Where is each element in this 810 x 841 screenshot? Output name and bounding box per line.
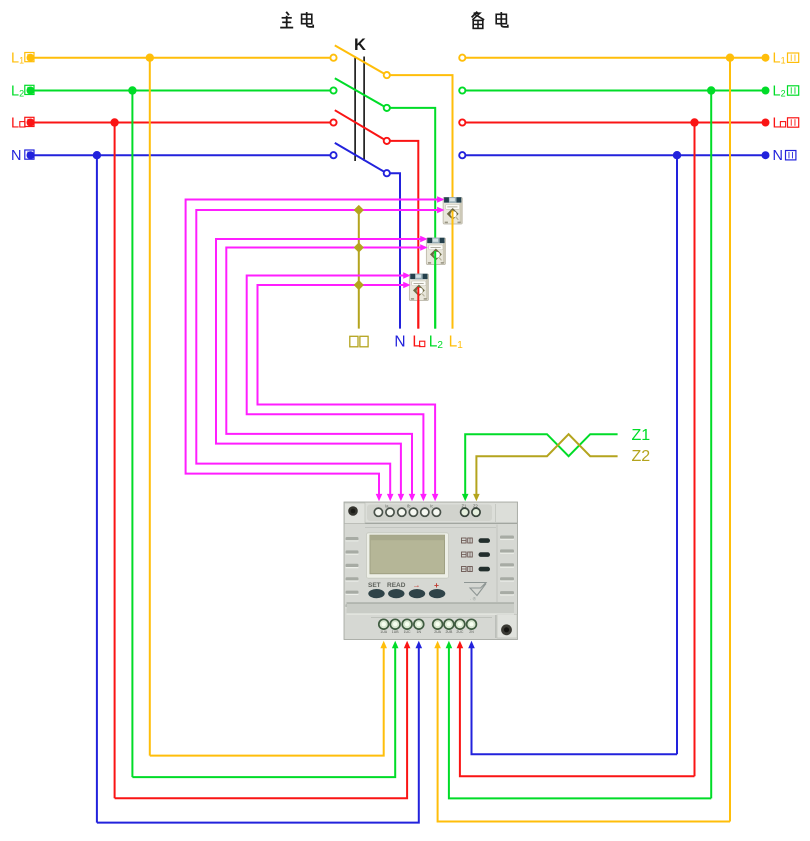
switch K pole N blade — [335, 143, 385, 172]
node L3 load label — [412, 334, 424, 351]
svg-text:K: K — [354, 36, 366, 54]
node L1 backup label — [773, 51, 799, 67]
switch K pole L1 output contact — [384, 72, 390, 78]
device U1 top terminal block — [374, 504, 480, 517]
node L1 load label — [449, 334, 464, 352]
wire U1 2UA sampling — [434, 641, 730, 822]
switch K backup contact L2 — [459, 87, 465, 93]
svg-text:N: N — [11, 148, 21, 164]
junction CT common a — [354, 205, 364, 215]
switch K backup contact L1 — [459, 55, 465, 61]
svg-text:2UC: 2UC — [456, 630, 463, 634]
wire L2 right vertical — [710, 91, 712, 799]
junction L3 right — [690, 118, 698, 126]
wire N backup horizontal — [466, 151, 770, 159]
wire L1 output drop — [390, 75, 453, 329]
wire U1 1N sampling — [97, 641, 422, 823]
wire U1 2UC sampling — [457, 641, 695, 776]
wire L2 main horizontal — [27, 87, 331, 95]
node L3 main source label — [11, 115, 34, 131]
switch K coupler bars — [355, 57, 364, 162]
junction N right — [673, 151, 681, 159]
wire L3 right vertical — [694, 123, 696, 777]
svg-text:Z1: Z1 — [632, 427, 651, 444]
switch K pole L2 main contact — [330, 87, 336, 93]
wire CT secondary s4 — [226, 244, 427, 501]
node N load label — [394, 334, 405, 351]
device U1 bottom terminal block — [379, 619, 477, 634]
current transformer CT1 — [443, 197, 462, 224]
wire L3 through CT3 — [417, 287, 419, 329]
wire N main horizontal — [27, 151, 331, 159]
wire L2 backup horizontal — [466, 87, 770, 95]
svg-text:Z2: Z2 — [632, 448, 651, 465]
switch K pole L2 blade — [335, 78, 385, 107]
label main power (zhu dian) — [280, 12, 313, 28]
node L2 main source label — [11, 83, 34, 99]
switch K pole L1 blade — [335, 45, 385, 74]
wire Z1 bus — [462, 434, 618, 501]
junction N left — [93, 151, 101, 159]
wire CT secondary s2 — [196, 207, 444, 502]
svg-text:2N: 2N — [469, 630, 474, 634]
junction CT common c — [354, 280, 364, 290]
junction L3 left — [110, 118, 118, 126]
node L1 main source label — [11, 51, 34, 67]
node CT common label — [350, 336, 368, 347]
svg-text:L2: L2 — [429, 334, 444, 352]
wire L2 output drop — [390, 108, 435, 329]
switch K backup contact L3 — [459, 119, 465, 125]
node Z2 label — [632, 448, 651, 465]
wire L1 through CT1 — [452, 211, 454, 329]
svg-text:Z1: Z1 — [462, 504, 468, 509]
svg-text:L2: L2 — [773, 83, 786, 99]
svg-text:N: N — [394, 334, 405, 351]
svg-text:+: + — [434, 580, 439, 590]
switch K pole L3 main contact — [330, 119, 336, 125]
node N backup label — [773, 148, 796, 164]
svg-text:L1: L1 — [773, 51, 786, 67]
wire L2 through CT2 — [434, 251, 436, 329]
wire L3 backup horizontal — [466, 119, 770, 127]
wire L3 main horizontal — [27, 119, 331, 127]
node L2 backup label — [773, 83, 799, 99]
wire U1 1UB sampling — [132, 641, 398, 777]
wire U1 1UA sampling — [150, 641, 387, 756]
svg-text:2UB: 2UB — [445, 630, 452, 634]
wire CT secondary s5 — [247, 272, 427, 501]
svg-text:SET: SET — [368, 582, 381, 589]
junction L2 left — [128, 86, 136, 94]
svg-text:Ic: Ic — [430, 504, 433, 509]
wire N output drop — [390, 173, 400, 328]
switch K pole L3 output contact — [384, 138, 390, 144]
switch K pole L1 main contact — [330, 55, 336, 61]
wire L3 left vertical — [114, 123, 116, 799]
svg-text:L1: L1 — [449, 334, 464, 352]
wire L3 output drop — [390, 141, 419, 329]
node N main source label — [11, 148, 34, 164]
device U1 bottom panel groove — [371, 615, 496, 638]
switch K pole L3 blade — [335, 110, 385, 140]
junction L1 right — [726, 54, 734, 62]
node Z1 label — [632, 427, 651, 444]
svg-text:L1: L1 — [11, 51, 24, 67]
node L2 load label — [429, 334, 444, 352]
wire CT secondary s3 — [216, 236, 428, 502]
svg-text:2UA: 2UA — [434, 630, 441, 634]
svg-text:→: → — [413, 581, 421, 590]
indicator fault label and LED — [462, 552, 491, 557]
switch K pole N main contact — [330, 152, 336, 158]
wire N left vertical — [96, 155, 98, 822]
svg-text:L: L — [773, 115, 781, 131]
switch K pole N output contact — [384, 170, 390, 176]
switch K pole L2 output contact — [384, 105, 390, 111]
wire L1 backup horizontal — [466, 54, 770, 62]
junction L2 right — [707, 86, 715, 94]
svg-text:1UB: 1UB — [392, 630, 399, 634]
junction CT common b — [354, 242, 364, 252]
label switch K — [354, 36, 366, 54]
svg-text:L: L — [11, 115, 19, 131]
device U1 right vents — [500, 536, 514, 610]
wire U1 2N sampling — [468, 641, 677, 755]
device U1 body — [344, 502, 518, 640]
wire CT secondary s1 — [186, 196, 445, 501]
device U1 buttons SET READ arrow plus — [368, 580, 445, 598]
svg-text:READ: READ — [387, 582, 406, 589]
wire Z2 bus — [473, 434, 617, 501]
wire U1 1UC sampling — [115, 641, 411, 798]
wire L1 left vertical — [149, 58, 151, 756]
indicator run label and LED — [462, 567, 491, 572]
wire L1 right vertical — [729, 58, 731, 822]
svg-text:L2: L2 — [11, 83, 24, 99]
wire L1 main horizontal — [27, 54, 331, 62]
current transformer CT2 — [426, 238, 445, 265]
wire L2 left vertical — [131, 91, 133, 778]
svg-text:· ®: · ® — [470, 596, 477, 602]
device U1 groove strip — [347, 603, 515, 614]
wire N right vertical — [676, 155, 678, 754]
wire CT secondary s6 — [258, 282, 439, 502]
wire CT common vertical — [358, 210, 360, 329]
svg-text:N: N — [773, 148, 783, 164]
device U1 left vents — [346, 537, 359, 608]
current transformer CT3 — [409, 274, 428, 301]
wire U1 2UB sampling — [446, 641, 712, 799]
switch K backup contact N — [459, 152, 465, 158]
node L3 backup label — [773, 115, 799, 131]
junction L1 left — [146, 54, 154, 62]
device U1 LCD display — [367, 533, 449, 578]
device U1 logo — [464, 583, 486, 602]
svg-text:1UC: 1UC — [404, 630, 411, 634]
svg-text:1UA: 1UA — [380, 630, 387, 634]
indicator power-off label and LED — [462, 538, 491, 543]
label backup power (bei dian) — [472, 12, 508, 29]
svg-text:1N: 1N — [417, 630, 422, 634]
svg-text:Z2: Z2 — [473, 504, 479, 509]
